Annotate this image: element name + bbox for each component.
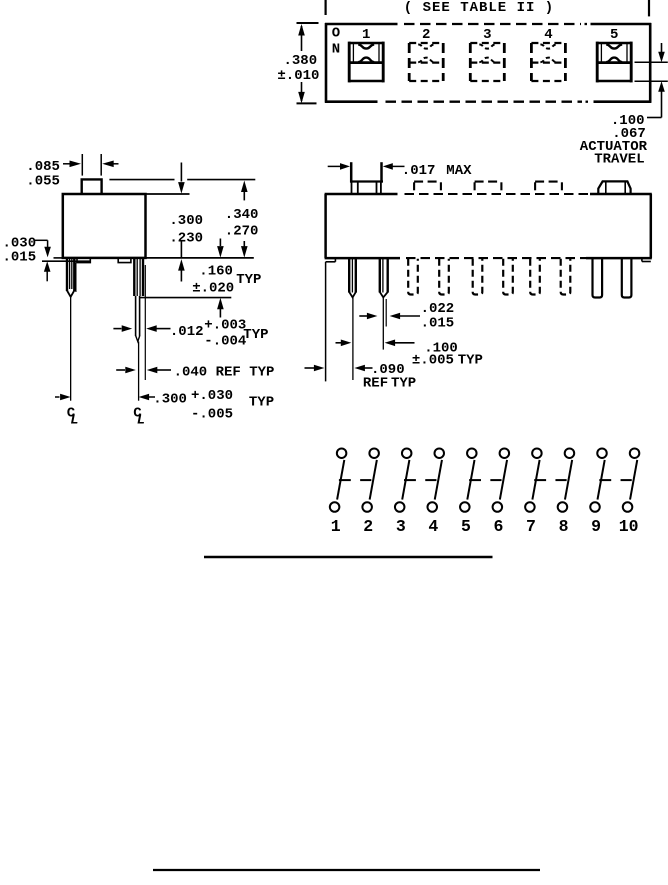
svg-text:.015: .015 (3, 249, 37, 265)
svg-text:.270: .270 (225, 224, 259, 240)
svg-text:N: N (332, 42, 340, 58)
svg-text:2: 2 (363, 517, 373, 536)
svg-text:TRAVEL: TRAVEL (594, 152, 644, 168)
svg-text:.055: .055 (26, 173, 60, 189)
svg-text:TYP: TYP (249, 395, 274, 411)
svg-text:±.005: ±.005 (412, 352, 454, 368)
svg-text:9: 9 (591, 517, 601, 536)
svg-text:1: 1 (331, 517, 341, 536)
svg-text:O: O (332, 26, 340, 42)
svg-text:.040 REF TYP: .040 REF TYP (174, 365, 275, 381)
svg-text:7: 7 (526, 517, 536, 536)
svg-text:5: 5 (610, 27, 618, 43)
svg-text:4: 4 (428, 517, 438, 536)
svg-text:6: 6 (493, 517, 503, 536)
svg-text:REF: REF (363, 376, 388, 392)
svg-text:±.010: ±.010 (277, 68, 319, 84)
svg-text:.300: .300 (153, 391, 187, 407)
svg-text:1: 1 (362, 27, 370, 43)
svg-text:8: 8 (559, 517, 569, 536)
svg-text:TYP: TYP (236, 272, 261, 288)
svg-text:5: 5 (461, 517, 471, 536)
svg-text:+.030: +.030 (191, 388, 233, 404)
svg-text:2: 2 (422, 27, 430, 43)
svg-text:4: 4 (544, 27, 552, 43)
svg-text:L: L (70, 413, 78, 429)
svg-text:.300: .300 (169, 213, 203, 229)
svg-text:-.004: -.004 (204, 333, 246, 349)
svg-text:.380: .380 (284, 53, 318, 69)
svg-text:TYP: TYP (391, 376, 416, 392)
svg-text:.015: .015 (421, 315, 455, 331)
svg-text:10: 10 (619, 517, 639, 536)
svg-text:TYP: TYP (243, 327, 268, 343)
svg-text:.012: .012 (170, 324, 204, 340)
svg-text:TYP: TYP (458, 352, 483, 368)
svg-text:MAX: MAX (446, 163, 472, 179)
svg-text:3: 3 (396, 517, 406, 536)
svg-text:.340: .340 (225, 207, 259, 223)
svg-text:-.005: -.005 (191, 407, 233, 423)
svg-text:L: L (137, 413, 145, 429)
svg-text:+.003: +.003 (204, 318, 246, 334)
svg-text:±.020: ±.020 (192, 281, 234, 297)
svg-text:3: 3 (483, 27, 491, 43)
svg-text:.017: .017 (402, 163, 436, 179)
svg-text:.230: .230 (169, 231, 203, 247)
svg-text:( SEE TABLE II ): ( SEE TABLE II ) (404, 0, 554, 16)
svg-text:.160: .160 (199, 264, 233, 280)
